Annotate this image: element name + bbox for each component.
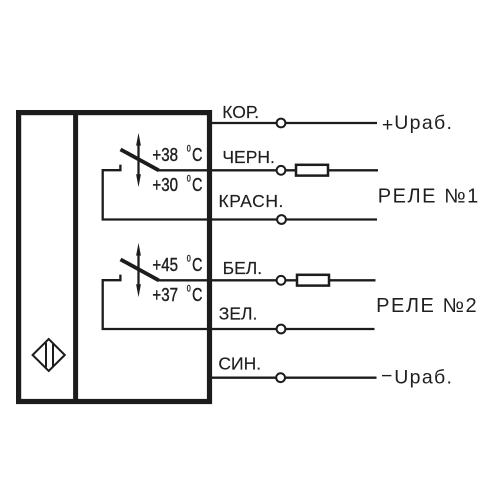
svg-text:РЕЛЕ №1: РЕЛЕ №1	[378, 186, 480, 208]
svg-text:ЗЕЛ.: ЗЕЛ.	[219, 304, 258, 324]
svg-text:C: C	[192, 145, 202, 165]
svg-text:+: +	[382, 114, 393, 136]
svg-text:СИН.: СИН.	[218, 354, 261, 374]
svg-text:+30: +30	[152, 174, 178, 195]
svg-text:РЕЛЕ №2: РЕЛЕ №2	[376, 295, 478, 317]
svg-text:C: C	[192, 175, 202, 195]
svg-text:−: −	[381, 365, 392, 387]
svg-text:Uраб.: Uраб.	[394, 366, 453, 388]
svg-text:C: C	[192, 255, 202, 275]
svg-text:C: C	[192, 285, 202, 305]
svg-text:0: 0	[187, 174, 191, 184]
svg-text:+45: +45	[152, 255, 178, 276]
svg-text:0: 0	[187, 284, 191, 294]
svg-text:КРАСН.: КРАСН.	[219, 191, 284, 211]
svg-text:0: 0	[187, 254, 191, 264]
svg-text:+38: +38	[152, 145, 178, 166]
svg-text:ЧЕРН.: ЧЕРН.	[222, 147, 275, 167]
svg-text:Uраб.: Uраб.	[394, 112, 453, 134]
svg-text:+37: +37	[152, 284, 178, 305]
svg-text:КОР.: КОР.	[222, 102, 259, 122]
svg-text:0: 0	[187, 144, 191, 154]
svg-text:БЕЛ.: БЕЛ.	[223, 258, 263, 278]
